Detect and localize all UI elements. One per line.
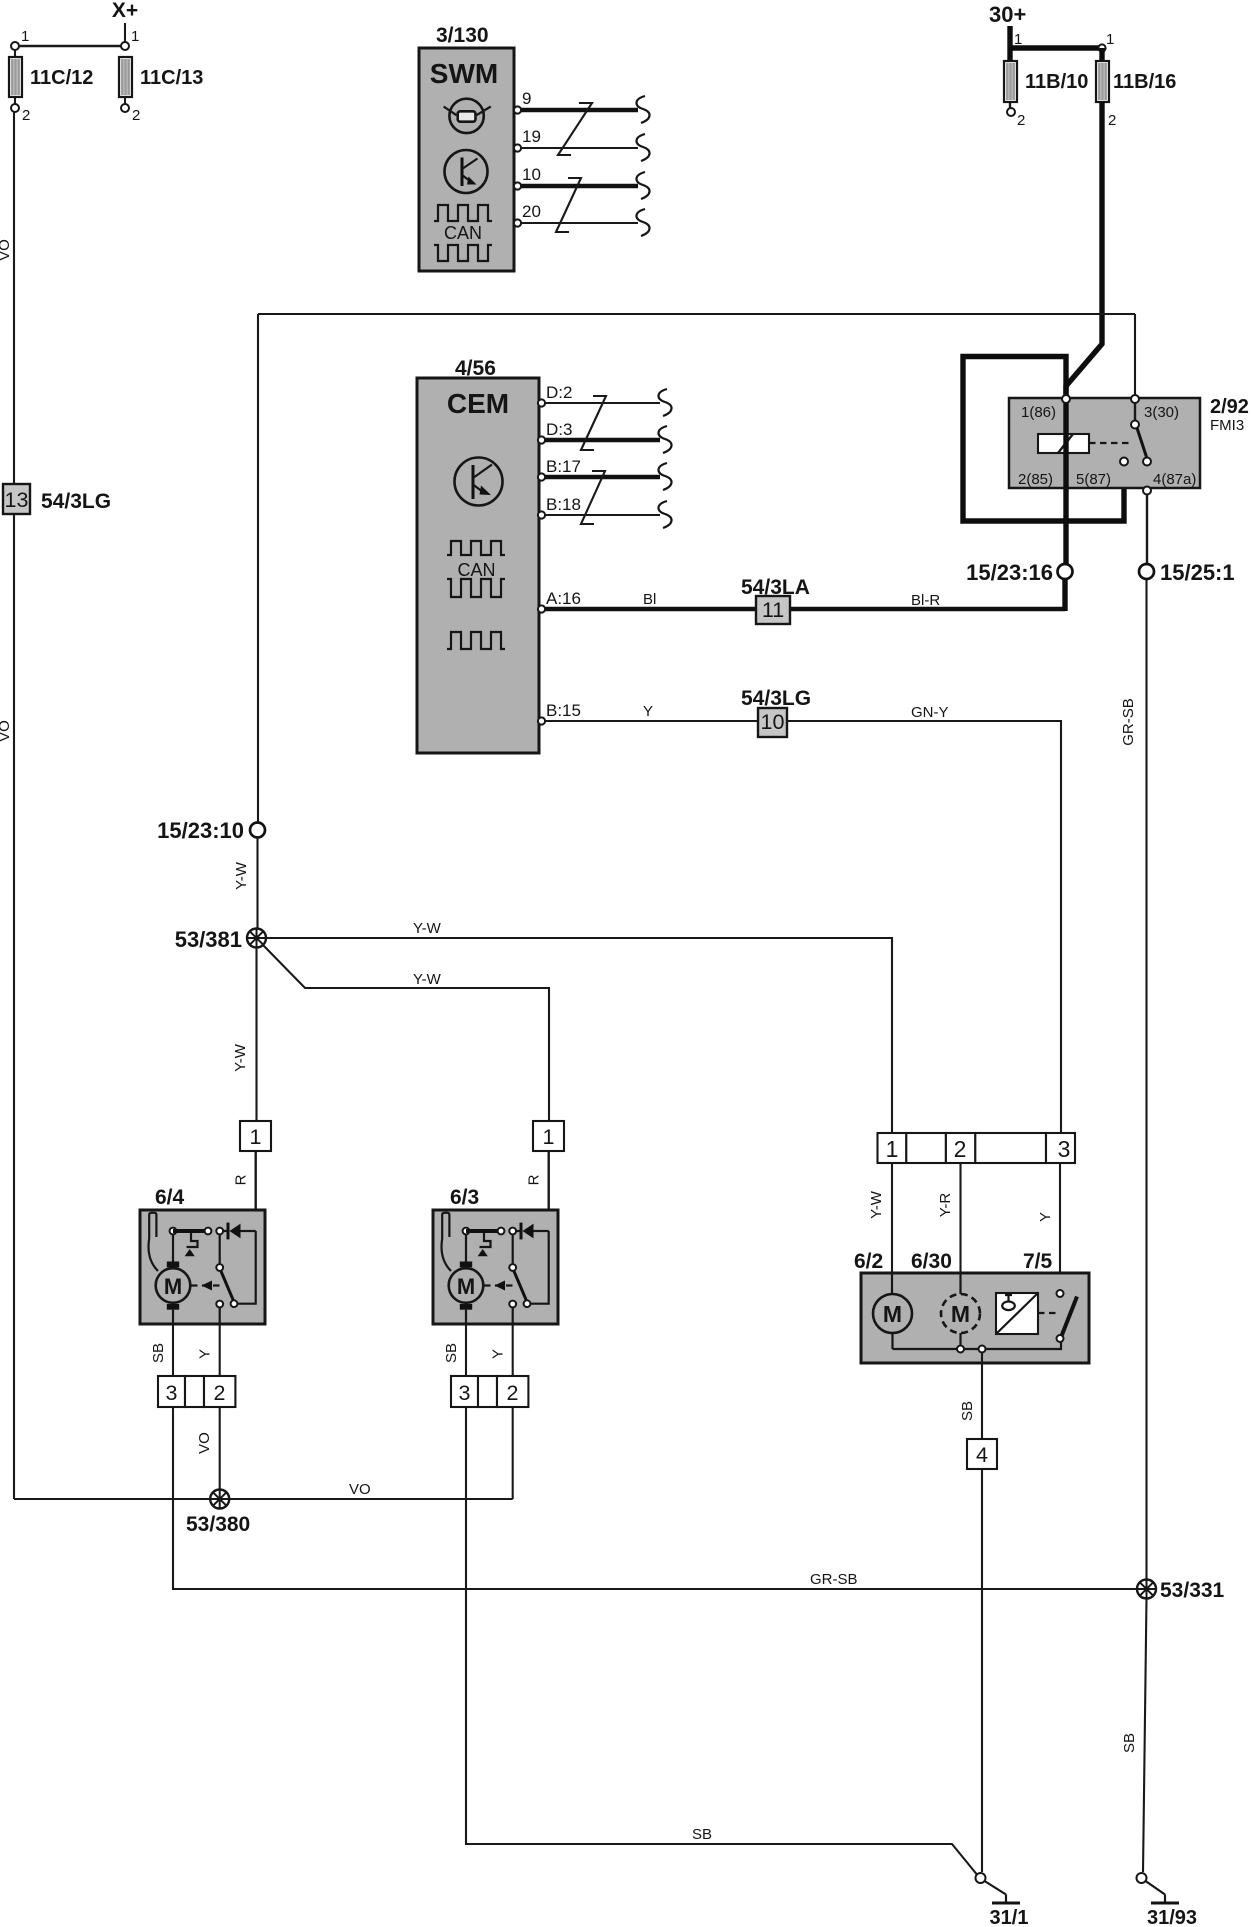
pin 10 of SWM [514, 182, 521, 189]
svg-text:2: 2 [22, 107, 30, 124]
fuse 11C/13 [119, 57, 132, 97]
break B:17 wire [658, 463, 671, 490]
svg-text:19: 19 [522, 127, 541, 146]
wire SB from 6/3 down [466, 1407, 977, 1874]
bus node SB [979, 1346, 986, 1353]
switch 7/5 top node [1057, 1290, 1064, 1297]
relay switch pivot [1131, 421, 1139, 429]
wire 11B/16 down trunk [1066, 102, 1102, 400]
ground 31/93 [1137, 1873, 1147, 1883]
fuse 11B/10 [1004, 61, 1017, 102]
svg-text:15/23:10: 15/23:10 [157, 818, 244, 843]
connector 3/2 of 6/4 [158, 1376, 185, 1407]
connector 10 54/3LG [758, 708, 787, 737]
wire A:16 Bl to 15/23:16 [545, 607, 1065, 611]
6/3 thermal trip [480, 1233, 491, 1247]
wire Y below 6/3 [512, 1324, 514, 1376]
svg-text:10: 10 [522, 165, 541, 184]
svg-text:2/92: 2/92 [1210, 396, 1249, 418]
connector 13 on VO trunk [3, 484, 30, 514]
svg-text:53/380: 53/380 [186, 1513, 250, 1536]
svg-text:1(86): 1(86) [1021, 404, 1056, 421]
svg-text:Y-W: Y-W [232, 1043, 249, 1072]
svg-text:20: 20 [522, 202, 541, 221]
wire pin 9 [521, 108, 638, 112]
svg-text:31/93: 31/93 [1147, 1907, 1197, 1927]
6/4 Y pin wire [219, 1308, 221, 1325]
dashes 7/5 to switch [1038, 1312, 1056, 1314]
svg-text:Y-W: Y-W [868, 1190, 885, 1219]
wire below 15/23:10 [256, 838, 258, 929]
icon CAN wave bottom SWM [434, 245, 492, 261]
wire R into 6/3 [548, 1151, 550, 1231]
6/3 hook lead curve [442, 1239, 451, 1272]
icon transistor SWM [445, 150, 488, 193]
break pin 10 wire [636, 172, 649, 199]
break pin 19 wire [636, 134, 649, 161]
relay switch arm end node [1143, 458, 1151, 466]
6/4 switch pivot [216, 1264, 223, 1271]
wire Y-R into 6/30 [959, 1163, 961, 1294]
icon transistor CEM [455, 458, 503, 506]
wire Y below 6/4 [219, 1324, 221, 1376]
svg-text:2: 2 [1108, 112, 1116, 129]
relay switch arm [1137, 428, 1147, 457]
break B:18 wire [658, 501, 671, 528]
svg-text:2(85): 2(85) [1018, 471, 1053, 488]
connector row 1-2-3 [878, 1133, 907, 1163]
svg-text:Bl: Bl [643, 591, 656, 608]
svg-text:1: 1 [543, 1125, 555, 1149]
svg-text:4(87a): 4(87a) [1153, 471, 1196, 488]
svg-text:1: 1 [21, 28, 29, 45]
svg-text:10: 10 [761, 710, 785, 734]
svg-text:Y: Y [1037, 1212, 1054, 1222]
svg-text:GN-Y: GN-Y [911, 704, 949, 721]
6/3 node left [463, 1228, 470, 1235]
wire R into 6/4 [254, 1151, 256, 1231]
svg-text:Y: Y [490, 1349, 507, 1359]
svg-text:CAN: CAN [444, 223, 482, 243]
connector 15/23:10 [250, 823, 265, 838]
svg-text:SB: SB [692, 1826, 712, 1843]
svg-text:SB: SB [959, 1401, 976, 1421]
wire VO rail [14, 1498, 513, 1500]
6/4 wire diode node to pivot [219, 1234, 221, 1264]
relay pin 3(30) node [1131, 395, 1139, 403]
6/4 wire node to motor [172, 1234, 174, 1264]
wire fuse 11B/10 bottom stub [1009, 102, 1011, 108]
svg-text:VO: VO [0, 239, 13, 261]
svg-text:54/3LG: 54/3LG [41, 490, 111, 513]
svg-text:FMI3: FMI3 [1210, 417, 1244, 434]
pressure sensor 7/5 square [996, 1293, 1038, 1334]
twisted pair mark D:2/D:3 [581, 396, 606, 450]
wire Y-W into 6/2 [891, 1163, 893, 1294]
fuse 11B/16 [1096, 61, 1109, 102]
6/3 switch return wire [531, 1231, 549, 1304]
break pin 9 wire [636, 96, 649, 123]
svg-text:53/381: 53/381 [175, 927, 242, 952]
6/3 Y pin wire [512, 1308, 514, 1325]
6/3 switch pivot [509, 1264, 516, 1271]
svg-text:D:2: D:2 [546, 383, 572, 402]
6/3 wire node to motor [465, 1234, 467, 1264]
svg-text:Y-R: Y-R [937, 1193, 954, 1218]
svg-text:Bl-R: Bl-R [911, 592, 940, 609]
6/4 switch return wire [238, 1231, 256, 1304]
wire 30+ stem [1007, 26, 1012, 61]
wire SB below connector 4 [981, 1469, 983, 1872]
svg-text:11B/10: 11B/10 [1025, 71, 1088, 93]
wire Y-W down to 6/4 [255, 948, 257, 1122]
svg-text:SB: SB [150, 1343, 167, 1363]
svg-text:3/130: 3/130 [436, 24, 489, 47]
icon CAN wave bottom CEM [447, 579, 505, 597]
svg-text:3: 3 [459, 1381, 471, 1405]
svg-text:GR-SB: GR-SB [810, 1571, 858, 1588]
svg-text:R: R [233, 1174, 250, 1185]
svg-text:B:18: B:18 [546, 495, 581, 514]
svg-text:53/331: 53/331 [1160, 1579, 1225, 1602]
wire VO left trunk [13, 112, 15, 1499]
svg-text:13: 13 [5, 488, 29, 512]
svg-text:30+: 30+ [989, 2, 1026, 27]
svg-text:1: 1 [131, 28, 139, 45]
wire pin 10 [521, 184, 638, 188]
relay pin 5(87) node [1120, 458, 1128, 466]
wire pin 20 [521, 222, 638, 224]
fuse 11C/12 [9, 57, 22, 97]
switch 7/5 arm [1062, 1297, 1078, 1337]
wire fuse 11C/12 bottom [14, 97, 16, 104]
svg-text:11C/12: 11C/12 [30, 67, 93, 89]
pin B:15 of CEM [538, 717, 545, 724]
wire fuse 11C/13 bottom [124, 97, 126, 104]
wire 4(87a) to 15/25:1 [1146, 495, 1148, 565]
splice 53/381 [247, 929, 266, 948]
relay coil [1038, 434, 1089, 453]
svg-text:11: 11 [762, 598, 784, 622]
svg-text:X+: X+ [112, 0, 138, 22]
connector 15/25:1 [1139, 564, 1154, 579]
svg-text:11B/16: 11B/16 [1113, 71, 1176, 93]
module CEM 4/56 box [417, 378, 539, 753]
svg-text:1: 1 [1014, 31, 1022, 48]
svg-text:11C/13: 11C/13 [140, 67, 203, 89]
wire B:15 Y / GN-Y [545, 721, 1061, 1133]
wire pin 19 [521, 147, 638, 149]
svg-text:A:16: A:16 [546, 589, 581, 608]
motor M of 6/4 [156, 1268, 191, 1303]
wire 6/2 bottom [891, 1333, 893, 1349]
connector 3/2 of 6/3 [451, 1376, 478, 1407]
svg-text:M: M [951, 1301, 970, 1327]
wire 30+ rail [1010, 45, 1102, 50]
svg-text:15/23:16: 15/23:16 [966, 560, 1053, 585]
svg-text:4: 4 [976, 1443, 988, 1467]
svg-text:VO: VO [349, 1481, 371, 1498]
6/3 Y pin node [509, 1301, 516, 1308]
6/4 thermal trip [187, 1233, 198, 1247]
wire through relay coil pin1 to pin2 [1063, 400, 1068, 564]
wire SB below 6/4 [172, 1324, 174, 1376]
wire 15/25:1 GR-SB down [1145, 579, 1147, 1580]
6/3 switch arm end node [524, 1300, 531, 1307]
pin 19 of SWM [514, 144, 521, 151]
6/3 thick link [466, 1229, 501, 1233]
svg-text:2: 2 [214, 1381, 226, 1405]
wire X+ stem [124, 23, 126, 46]
6/4 thick link [173, 1229, 208, 1233]
node 2 of fuse 11B/10 [1007, 108, 1015, 116]
connector 1 above 6/4 [240, 1121, 271, 1151]
svg-text:Y: Y [197, 1349, 214, 1359]
svg-text:31/1: 31/1 [990, 1907, 1029, 1927]
motor M 6/2 [873, 1294, 912, 1333]
svg-text:D:3: D:3 [546, 420, 572, 439]
motor M of 6/3 [449, 1268, 484, 1303]
node 1 of fuse 11C/13 [121, 42, 129, 50]
svg-text:6/4: 6/4 [155, 1186, 185, 1209]
pin D:3 of CEM [538, 436, 545, 443]
svg-text:2: 2 [1017, 112, 1025, 129]
twisted pair mark 10/20 [556, 178, 581, 232]
svg-text:CAN: CAN [457, 560, 495, 580]
svg-text:3: 3 [166, 1381, 178, 1405]
6/4 node left [170, 1228, 177, 1235]
wire 6/30 top [959, 1273, 961, 1294]
connector 15/23:16 [1058, 564, 1073, 579]
6/4 SB pin wire [172, 1310, 174, 1324]
svg-text:1: 1 [1106, 31, 1114, 48]
svg-text:M: M [164, 1274, 182, 1299]
pin A:16 of CEM [538, 605, 545, 612]
svg-text:1: 1 [886, 1136, 899, 1162]
wire pin B:18 [545, 514, 660, 516]
wire 15/23:16 to Bl-R rail [1062, 579, 1067, 611]
svg-text:VO: VO [0, 720, 13, 742]
6/3 node mid [498, 1228, 505, 1235]
wire pin D:3 [545, 438, 660, 442]
assembly ground bus [893, 1342, 1062, 1349]
node 2 of fuse 11C/13 [121, 104, 129, 112]
connector 11 54/3LA [756, 596, 790, 624]
wire fuse 11B/16 top [1099, 48, 1104, 61]
6/4 switch arm end node [231, 1300, 238, 1307]
svg-text:CEM: CEM [447, 388, 509, 419]
pin B:18 of CEM [538, 511, 545, 518]
wire rail right drop to relay pin 3 [1134, 314, 1136, 395]
6/4 diode input node [216, 1228, 223, 1235]
svg-text:9: 9 [522, 89, 531, 108]
svg-text:SB: SB [1121, 1733, 1138, 1753]
connector 4 [967, 1439, 997, 1469]
wire into fuse 11C/12 [14, 50, 16, 58]
svg-text:2: 2 [954, 1136, 967, 1162]
wire fuse top rail [15, 45, 125, 47]
splice 53/331 [1137, 1580, 1156, 1599]
wiper motor 6/3 box [433, 1210, 558, 1324]
wire GR-SB/SB right to ground [1143, 1599, 1147, 1873]
wire pin D:2 [545, 402, 660, 404]
svg-text:SWM: SWM [430, 58, 498, 89]
wire 6/30 bottom [959, 1333, 961, 1346]
svg-text:6/2: 6/2 [854, 1250, 883, 1273]
svg-text:7/5: 7/5 [1023, 1250, 1053, 1273]
svg-text:Y-W: Y-W [413, 920, 442, 937]
splice 53/380 [210, 1490, 229, 1509]
connector 1 above 6/3 [533, 1121, 564, 1151]
6/3 wire diode node to pivot [512, 1234, 514, 1264]
pin 9 of SWM [514, 106, 521, 113]
icon CAN wave top SWM [434, 205, 492, 221]
node 1 of fuse 11B/16 [1098, 44, 1105, 51]
svg-text:6/30: 6/30 [911, 1250, 952, 1273]
wire relay coil feed loop [963, 357, 1124, 522]
svg-text:1: 1 [250, 1125, 262, 1149]
svg-text:3: 3 [1058, 1136, 1071, 1162]
node 2 of fuse 11C/12 [11, 104, 19, 112]
bus node 6/30 [957, 1346, 964, 1353]
relay pin 1(86) node [1062, 395, 1070, 403]
switch 7/5 bottom node [1057, 1335, 1064, 1342]
6/3 dashed arrow to motor [484, 1284, 513, 1286]
svg-text:3(30): 3(30) [1144, 404, 1179, 421]
wire Y-W to 6/2 branch [266, 938, 892, 1133]
svg-text:SB: SB [443, 1343, 460, 1363]
relay pin 4(87a) node [1143, 487, 1151, 495]
svg-text:M: M [457, 1274, 475, 1299]
icon square wave lower CEM [447, 632, 505, 649]
wire VO from 6/4 [219, 1407, 221, 1490]
6/3 diode [520, 1223, 523, 1240]
svg-text:2: 2 [507, 1381, 519, 1405]
wire rail 15-feed horizontal [258, 313, 1135, 315]
twisted pair mark B:17/B:18 [581, 471, 605, 524]
icon steering wheel [449, 99, 483, 133]
svg-text:R: R [526, 1174, 543, 1185]
wire Y into 7/5 [1059, 1163, 1061, 1290]
wire VO from 6/3 [512, 1407, 514, 1499]
motor M 6/30 dashed [941, 1294, 980, 1333]
break pin 20 wire [636, 209, 649, 236]
svg-text:Y: Y [643, 703, 653, 720]
module SWM 3/130 box [419, 48, 514, 271]
6/4 hook lead curve [149, 1239, 158, 1272]
svg-text:6/3: 6/3 [450, 1186, 479, 1209]
6/4 dashed arrow to motor [191, 1284, 220, 1286]
wiper motor 6/4 box [140, 1210, 265, 1324]
6/4 park-heater hook [149, 1213, 156, 1239]
6/4 switch arm [221, 1271, 233, 1300]
svg-text:Y-W: Y-W [233, 861, 250, 890]
svg-text:54/3LG: 54/3LG [741, 687, 811, 710]
svg-text:M: M [883, 1301, 902, 1327]
wire SB from 6/4 to GR-SB rail [173, 1407, 1147, 1589]
wire SB below 6/3 [465, 1324, 467, 1376]
6/3 park-heater hook [442, 1213, 449, 1239]
relay contact dashes [1089, 442, 1130, 444]
relay 2/92 box [1009, 398, 1200, 488]
node 1 of fuse 11C/12 [11, 42, 19, 50]
washer assembly box [861, 1273, 1089, 1363]
svg-text:2: 2 [132, 107, 140, 124]
icon CAN wave top CEM [447, 541, 505, 555]
svg-text:B:15: B:15 [546, 701, 581, 720]
wire 6/2 top [891, 1273, 893, 1294]
svg-text:5(87): 5(87) [1076, 471, 1111, 488]
svg-text:VO: VO [196, 1432, 213, 1454]
wire pin3 to switch pivot [1134, 403, 1136, 421]
wire Y-W to 6/3 branch [263, 945, 550, 1122]
wire SB from assembly [981, 1353, 983, 1440]
svg-text:GR-SB: GR-SB [1120, 698, 1137, 746]
ground 31/1 [976, 1873, 986, 1883]
wire rail left drop to 15/23:10 [257, 314, 259, 823]
6/4 node mid [205, 1228, 212, 1235]
6/3 diode input node [509, 1228, 516, 1235]
svg-text:15/25:1: 15/25:1 [1160, 560, 1235, 585]
6/4 diode [227, 1223, 230, 1240]
6/3 switch arm [514, 1271, 526, 1300]
twisted pair mark 9/19 [558, 103, 592, 155]
svg-text:B:17: B:17 [546, 457, 581, 476]
6/4 Y pin node [216, 1301, 223, 1308]
pin D:2 of CEM [538, 399, 545, 406]
break D:3 wire [658, 426, 671, 453]
pin 20 of SWM [514, 219, 521, 226]
pin B:17 of CEM [538, 473, 545, 480]
wire pin B:17 [545, 475, 660, 479]
break D:2 wire [658, 389, 671, 416]
svg-text:Y-W: Y-W [413, 971, 442, 988]
6/3 SB pin wire [465, 1310, 467, 1324]
